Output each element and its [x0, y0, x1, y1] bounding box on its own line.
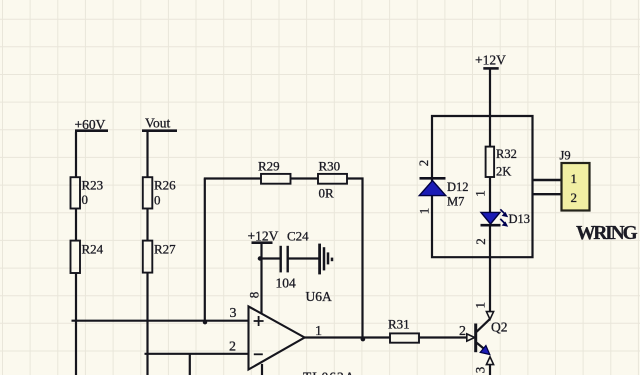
wire J9 pin1: [533, 179, 562, 181]
svg-text:104: 104: [276, 276, 297, 291]
wire C24 to ground: [288, 257, 320, 259]
svg-text:2: 2: [473, 238, 488, 245]
svg-text:2: 2: [416, 160, 431, 167]
wire box top to R32: [489, 116, 491, 147]
resistor R32: [486, 147, 517, 177]
svg-text:2: 2: [571, 190, 578, 205]
svg-text:R23: R23: [82, 178, 104, 193]
svg-text:R30: R30: [319, 158, 341, 173]
junction dot at output node: [361, 337, 366, 342]
LED D13: [481, 209, 531, 227]
svg-text:R26: R26: [154, 178, 176, 193]
svg-text:R27: R27: [154, 242, 176, 257]
svg-text:U6A: U6A: [306, 289, 332, 304]
wire +60V to R23: [75, 132, 77, 178]
svg-text:TL062A: TL062A: [303, 370, 356, 375]
svg-text:R32: R32: [496, 147, 517, 161]
diode D12: [419, 178, 468, 195]
svg-text:2K: 2K: [496, 164, 511, 178]
svg-text:R31: R31: [388, 316, 410, 331]
svg-text:WRING: WRING: [576, 223, 637, 244]
svg-text:3: 3: [230, 306, 237, 321]
svg-text:1: 1: [472, 302, 487, 309]
transistor Q2: [467, 312, 494, 365]
power port +12V (op-amp bypass): [248, 228, 279, 243]
svg-text:+12V: +12V: [248, 228, 279, 243]
svg-text:C24: C24: [287, 228, 309, 243]
svg-text:R24: R24: [82, 242, 104, 257]
resistor R27: [143, 241, 176, 273]
resistor R31: [388, 316, 419, 342]
wire D13 to box bottom: [489, 225, 491, 257]
capacitor C24: [281, 228, 309, 272]
svg-text:0R: 0R: [319, 186, 335, 201]
svg-text:M7: M7: [447, 194, 464, 208]
wire op-amp pin2 net: [145, 353, 249, 355]
svg-text:0: 0: [82, 192, 89, 207]
wire loop box (D12 / R32-D13 / J9 branches): [432, 116, 533, 257]
junction dot at pin3 net / feedback vertical: [203, 320, 207, 324]
wire R23 to R24: [75, 209, 77, 241]
resistor R23: [71, 177, 104, 208]
wire R32 to D13: [489, 177, 491, 212]
svg-text:Q2: Q2: [491, 320, 508, 335]
wire op-amp pin3 net: [72, 320, 249, 322]
svg-text:+12V: +12V: [475, 53, 506, 68]
op-amp U6A: [249, 306, 305, 369]
wire op-amp pin 4 down: [261, 364, 263, 375]
wire Vout to R26: [146, 132, 148, 178]
wire R29 to R30: [291, 177, 319, 179]
wire branch down from pin2 net: [189, 354, 191, 375]
wire feedback top: [204, 177, 261, 179]
wire Q2 collector up: [489, 257, 491, 311]
wire op-amp output: [305, 336, 390, 338]
svg-text:2: 2: [459, 324, 466, 339]
resistor R30: [318, 158, 347, 183]
svg-text:8: 8: [247, 292, 262, 299]
wire R27 down to bottom edge: [146, 273, 148, 375]
svg-text:D13: D13: [509, 212, 531, 226]
svg-text:1: 1: [416, 208, 431, 215]
wire R30 to feedback right vertical: [347, 179, 363, 338]
svg-text:J9: J9: [560, 148, 571, 162]
power port +60V: [75, 117, 109, 132]
wire to C24: [262, 257, 281, 259]
resistor R24: [71, 241, 104, 273]
svg-text:D12: D12: [447, 180, 469, 194]
svg-text:1: 1: [571, 171, 578, 186]
wire +12V down to op-amp power pin 8: [260, 244, 262, 314]
resistor R29: [258, 158, 291, 183]
svg-text:1: 1: [315, 324, 322, 339]
wire feedback left vertical: [204, 179, 206, 321]
wire J9 pin2: [533, 193, 562, 195]
svg-text:Vout: Vout: [145, 116, 171, 131]
wire Q2 emitter down: [489, 365, 491, 375]
power port Vout: [142, 116, 177, 131]
resistor R26: [143, 177, 176, 208]
svg-text:2: 2: [229, 340, 236, 355]
junction dot at +12V / C24 tap: [258, 256, 262, 260]
power port +12V (top): [475, 53, 506, 116]
connector J9: [560, 148, 590, 210]
wire R26 to R27: [146, 209, 148, 241]
wire R31 to Q2 base: [419, 336, 467, 338]
svg-text:1: 1: [473, 190, 488, 197]
svg-text:0: 0: [154, 193, 161, 208]
svg-text:R29: R29: [258, 158, 280, 173]
wire R24 down to bottom edge: [75, 273, 77, 375]
svg-text:3: 3: [472, 367, 487, 374]
power ground symbol: [320, 244, 332, 275]
